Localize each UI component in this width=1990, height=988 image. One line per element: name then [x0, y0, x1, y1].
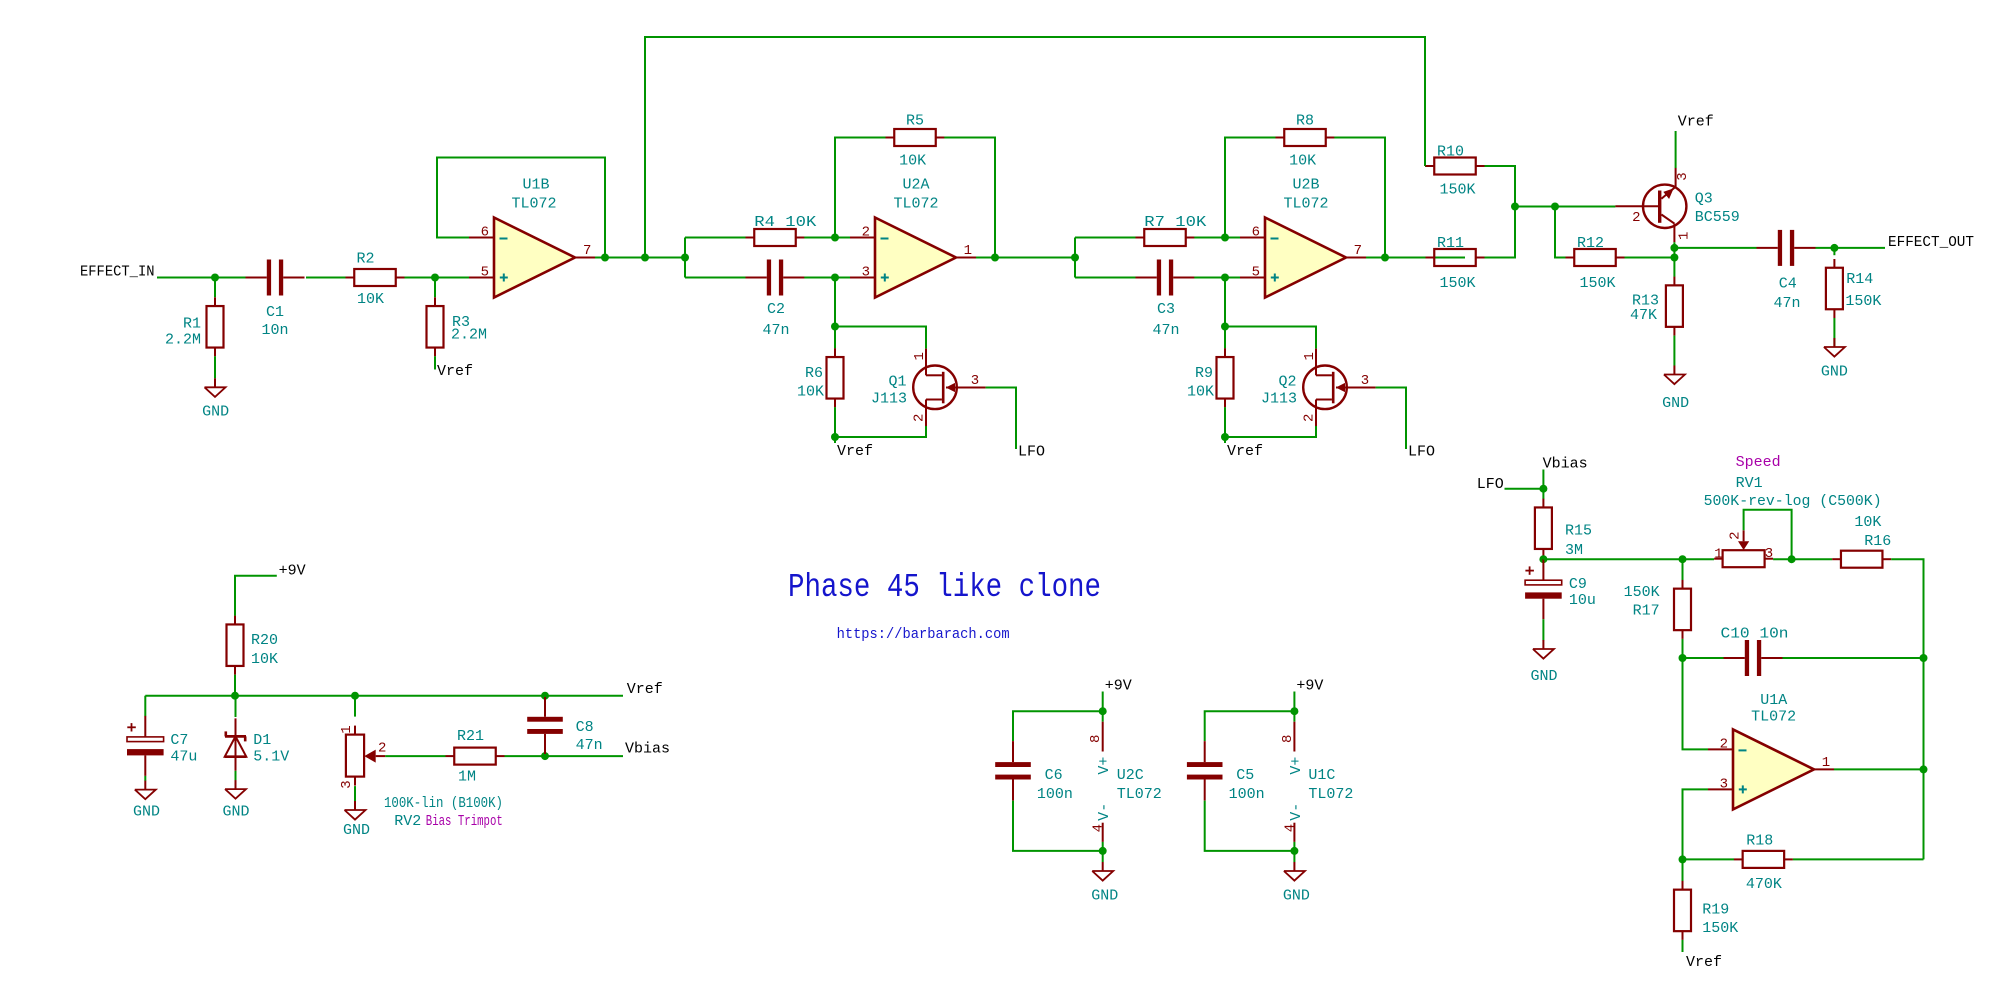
wire to R7	[1075, 237, 1136, 239]
wire U2B out to R11	[1385, 257, 1426, 259]
wire EFFECT_IN to C1	[157, 277, 246, 279]
R15 labels 3M	[1565, 523, 1592, 560]
svg-text:6: 6	[1252, 225, 1260, 241]
wire R3 top	[434, 278, 436, 298]
wire R9 bottom	[1224, 407, 1226, 443]
wire R9 top lead	[1224, 327, 1226, 349]
capacitor C5	[1187, 741, 1223, 800]
svg-text:GND: GND	[1530, 668, 1557, 685]
svg-text:C5: C5	[1236, 767, 1254, 784]
wire LFO to Vbias node	[1505, 488, 1544, 490]
resistor R9	[1217, 348, 1234, 407]
svg-text:C9: C9	[1569, 576, 1587, 593]
svg-text:4: 4	[1091, 824, 1107, 832]
svg-text:TL072: TL072	[1283, 196, 1328, 213]
svg-text:10n: 10n	[261, 322, 288, 339]
Q1 pin numbers 1 2 3	[912, 352, 980, 422]
svg-text:3: 3	[1765, 546, 1773, 562]
ground U1C	[1283, 862, 1310, 905]
resistor R10	[1426, 158, 1485, 175]
transistor Q3 BC559	[1615, 168, 1686, 242]
Q2 pin numbers 1 2 3	[1302, 352, 1370, 422]
net label Vref (R19)	[1686, 954, 1722, 971]
C10 labels 10n	[1721, 626, 1789, 643]
ground U2C	[1091, 862, 1118, 905]
svg-text:2.2M: 2.2M	[165, 332, 201, 349]
R9 labels 10K	[1187, 365, 1214, 401]
U2C labels TL072	[1117, 767, 1162, 803]
svg-text:GND: GND	[343, 822, 370, 839]
wire R10/R11 right join	[1485, 166, 1516, 258]
svg-text:GND: GND	[222, 804, 249, 821]
svg-text:https://barbarach.com: https://barbarach.com	[837, 626, 1010, 643]
junction inverting node U2B	[1221, 234, 1229, 242]
potentiometer RV1	[1714, 530, 1773, 567]
net label Vref (rail)	[627, 681, 663, 698]
wire Q2 source to Vref node	[1225, 426, 1316, 437]
svg-text:R9: R9	[1195, 365, 1213, 382]
wire decoupling loop C5	[1205, 711, 1295, 851]
svg-text:5: 5	[481, 265, 489, 281]
wire R4 to inverting input	[804, 237, 850, 239]
svg-text:C1: C1	[266, 304, 284, 321]
Q2 labels J113	[1261, 374, 1297, 408]
junction Vref/RV2	[351, 692, 359, 700]
junction C8/Vbias	[541, 752, 549, 760]
wire R16 to right rail	[1891, 559, 1923, 859]
wire R1 top	[214, 278, 216, 298]
wire R17 bottom	[1682, 639, 1684, 658]
svg-text:150K: 150K	[1439, 182, 1475, 199]
R21 labels 1M	[457, 728, 484, 786]
capacitor C7 polarized	[127, 716, 164, 776]
junction U2A output	[991, 254, 999, 262]
wire R12 to Q3 collector node	[1625, 257, 1675, 259]
U1C labels TL072	[1308, 767, 1353, 803]
capacitor C3	[1136, 260, 1195, 296]
resistor R15	[1535, 499, 1552, 558]
ground RV2	[343, 801, 370, 839]
junction Vref/R20	[231, 692, 239, 700]
resistor R7	[1136, 229, 1195, 246]
wire RV2 top	[354, 696, 356, 717]
svg-text:Vref: Vref	[1227, 443, 1263, 460]
power +9V (U2C)	[1103, 677, 1132, 711]
resistor R16	[1832, 551, 1891, 568]
svg-text:TL072: TL072	[1117, 786, 1162, 803]
wire R6 bottom	[834, 407, 836, 443]
svg-text:100n: 100n	[1037, 786, 1073, 803]
svg-text:10K: 10K	[797, 384, 824, 401]
wire Q1 gate to LFO	[986, 388, 1016, 450]
svg-text:GND: GND	[1662, 395, 1689, 412]
wire R15 node to RV1	[1543, 558, 1714, 560]
svg-text:R21: R21	[457, 728, 484, 745]
svg-text:U2A: U2A	[902, 177, 929, 194]
svg-text:2: 2	[1302, 414, 1318, 422]
net label LFO (Q1)	[1018, 444, 1045, 461]
svg-text:Vref: Vref	[837, 443, 873, 460]
U1A labels TL072	[1751, 692, 1796, 726]
wire R14 top	[1833, 248, 1835, 255]
svg-text:10K: 10K	[1289, 153, 1316, 170]
svg-text:Vbias: Vbias	[625, 741, 670, 758]
resistor R1	[207, 297, 224, 356]
svg-text:5: 5	[1252, 265, 1260, 281]
svg-text:10K: 10K	[1854, 514, 1881, 531]
wire R18 left	[1683, 858, 1735, 860]
svg-text:2: 2	[862, 225, 870, 241]
R12 labels 150K	[1577, 235, 1616, 292]
svg-text:+9V: +9V	[1105, 677, 1132, 694]
wire Q2 gate to LFO	[1376, 388, 1406, 450]
wire to C2	[685, 277, 746, 279]
svg-text:2: 2	[1720, 737, 1728, 753]
C1 labels 10n	[261, 304, 288, 339]
U2B pin numbers 6 5 7	[1252, 225, 1362, 281]
resistor R18	[1734, 851, 1793, 868]
net label LFO (Q2)	[1408, 444, 1435, 461]
wire C7 to ground	[144, 776, 146, 781]
svg-text:R18: R18	[1746, 833, 1773, 850]
wire long top feedback to R10	[645, 37, 1425, 258]
svg-text:10K: 10K	[899, 153, 926, 170]
R6 labels 10K	[797, 365, 824, 401]
wire C1 to R2	[306, 277, 346, 279]
wire C7 top	[144, 696, 146, 717]
net label Vref (Q3)	[1678, 114, 1714, 131]
U1B pin numbers 6 5 7	[481, 225, 592, 281]
zener diode D1	[225, 718, 247, 770]
R7 labels 10K	[1144, 214, 1206, 231]
resistor R2	[346, 269, 405, 286]
svg-text:D1: D1	[253, 732, 271, 749]
svg-text:47K: 47K	[1630, 307, 1657, 324]
svg-text:LFO: LFO	[1477, 476, 1504, 493]
wire R18 right to rail	[1793, 858, 1924, 860]
R5 labels 10K	[899, 113, 926, 170]
wire to Q1 drain	[835, 327, 926, 349]
junction +9V rail U2C	[1099, 707, 1107, 715]
wire RV1 to R16	[1773, 558, 1832, 560]
wire to C3	[1075, 277, 1136, 279]
svg-text:5.1V: 5.1V	[253, 749, 289, 766]
capacitor C10	[1724, 640, 1783, 676]
wire decoupling loop C6	[1013, 711, 1103, 851]
svg-text:10K: 10K	[251, 651, 278, 668]
wire stage split U2B	[1074, 238, 1076, 278]
net label Vref (Q2)	[1227, 443, 1263, 460]
junction Vref node Q1	[831, 433, 839, 441]
C6 labels 100n	[1037, 767, 1073, 803]
resistor R8	[1276, 129, 1335, 146]
wire R2 to U1B pin 5	[405, 277, 471, 279]
transistor Q2 J113	[1303, 349, 1375, 426]
ground C7	[133, 781, 160, 821]
wire D1 top	[235, 696, 237, 717]
svg-text:2: 2	[1728, 531, 1744, 539]
wire Vbias down	[1542, 470, 1544, 500]
svg-text:TL072: TL072	[893, 196, 938, 213]
svg-text:C10 10n: C10 10n	[1721, 626, 1789, 643]
svg-text:C2: C2	[767, 301, 785, 318]
junction collector / EFFECT_OUT	[1670, 244, 1678, 252]
RV2 pin numbers 1 2 3	[339, 725, 386, 789]
svg-text:150K: 150K	[1439, 275, 1475, 292]
wire RV1 wiper loop	[1744, 510, 1792, 560]
svg-text:Vbias: Vbias	[1543, 456, 1588, 473]
wire C2 to non-inverting input	[804, 277, 850, 279]
Q1 labels J113	[871, 374, 907, 408]
svg-text:470K: 470K	[1746, 876, 1782, 893]
capacitor C4	[1757, 230, 1816, 266]
wire R17 top lead	[1682, 559, 1684, 580]
wire Q1 source to Vref node	[835, 426, 926, 437]
R8 labels 10K	[1289, 113, 1316, 170]
wire Vref rail	[145, 695, 623, 697]
junction stage input U2B	[1071, 254, 1079, 262]
net label Vbias (LFO)	[1543, 456, 1588, 473]
svg-text:Vref: Vref	[1678, 114, 1714, 131]
svg-text:C4: C4	[1779, 276, 1797, 293]
RV1 field Speed	[1736, 454, 1781, 471]
net label EFFECT_IN	[80, 263, 155, 280]
svg-text:47n: 47n	[1152, 322, 1179, 339]
wire collector to C4	[1674, 247, 1756, 249]
svg-text:10K: 10K	[357, 291, 384, 308]
wire U1A output to rail	[1834, 768, 1924, 770]
svg-text:3M: 3M	[1565, 542, 1583, 559]
wire R10 left from top feedback	[1424, 165, 1427, 167]
svg-text:Q2: Q2	[1278, 374, 1296, 391]
ground R14	[1821, 338, 1848, 381]
junction U1B out / feedback	[601, 254, 609, 262]
junction R18/R19/pin3	[1679, 855, 1687, 863]
junction inverting node U2A	[831, 234, 839, 242]
capacitor C8	[527, 697, 563, 754]
wire R13 to ground	[1673, 336, 1675, 366]
U1A pin numbers 2 3 1	[1720, 737, 1831, 793]
svg-text:Vref: Vref	[437, 363, 473, 380]
net label Vref (Q1)	[837, 443, 873, 460]
R1 labels 2.2M	[165, 316, 201, 349]
capacitor C6	[995, 741, 1031, 800]
svg-text:J113: J113	[871, 391, 907, 408]
svg-text:Vref: Vref	[1686, 954, 1722, 971]
wire C10 right to rail	[1783, 657, 1924, 659]
junction EFFECT_OUT / R14	[1830, 244, 1838, 252]
svg-text:47n: 47n	[1773, 295, 1800, 312]
C9 labels 10u	[1569, 576, 1596, 609]
wire RV2 wiper to R21	[385, 755, 445, 757]
RV1 labels 500K-rev-log (C500K)	[1704, 475, 1882, 510]
subtitle url	[837, 626, 1010, 643]
op-amp U2A	[850, 218, 976, 298]
svg-text:R20: R20	[251, 632, 278, 649]
ground D1	[222, 780, 249, 820]
resistor R20	[227, 616, 244, 675]
capacitor C1	[246, 260, 305, 296]
resistor R6	[827, 348, 844, 407]
resistor R3	[427, 297, 444, 356]
net label LFO (source)	[1477, 476, 1504, 493]
junction R9 top	[1221, 323, 1229, 331]
svg-text:+9V: +9V	[1296, 677, 1323, 694]
junction base node / R12	[1551, 203, 1559, 211]
junction U2B output	[1381, 254, 1389, 262]
svg-text:V-: V-	[1288, 803, 1305, 821]
svg-text:R17: R17	[1633, 603, 1660, 620]
R20 labels 10K	[251, 632, 278, 668]
svg-text:GND: GND	[1821, 364, 1848, 381]
wire U1B output net	[595, 257, 685, 259]
svg-text:Phase 45 like clone: Phase 45 like clone	[788, 569, 1101, 606]
capacitor C9 polarized	[1525, 559, 1562, 619]
junction C10/rail	[1920, 654, 1928, 662]
svg-text:8: 8	[1280, 735, 1296, 743]
wire R20 to Vref rail	[234, 675, 236, 696]
svg-text:4: 4	[1282, 824, 1298, 832]
svg-text:TL072: TL072	[511, 196, 556, 213]
wire to R4	[685, 237, 746, 239]
resistor R4	[746, 229, 805, 246]
svg-text:R11: R11	[1437, 235, 1464, 252]
svg-text:GND: GND	[133, 804, 160, 821]
svg-text:8: 8	[1088, 735, 1104, 743]
wire C4 to EFFECT_OUT	[1816, 247, 1886, 249]
svg-text:500K-rev-log (C500K): 500K-rev-log (C500K)	[1704, 493, 1882, 510]
svg-text:10u: 10u	[1569, 592, 1596, 609]
svg-text:R8: R8	[1296, 113, 1314, 130]
svg-text:R12: R12	[1577, 235, 1604, 252]
svg-text:TL072: TL072	[1751, 709, 1796, 726]
svg-text:R10: R10	[1437, 143, 1464, 160]
R2 labels 10K	[356, 251, 384, 309]
svg-text:2.2M: 2.2M	[451, 327, 487, 344]
op-amp U1B	[469, 218, 595, 298]
svg-text:47n: 47n	[762, 322, 789, 339]
wire stage split U2A	[684, 238, 686, 278]
junction RV1 wiper/pin3	[1788, 555, 1796, 563]
junction R10/R11 node	[1511, 203, 1519, 211]
U2B labels TL072	[1283, 177, 1328, 213]
op-amp power unit U2C pins 8 V+ V- 4	[1088, 711, 1113, 851]
svg-text:V-: V-	[1096, 803, 1113, 821]
R17 labels 150K	[1624, 584, 1660, 620]
R10 labels 150K	[1437, 143, 1476, 198]
wire R1 to ground	[214, 356, 216, 378]
Q3 pin numbers 2 3 1	[1632, 172, 1692, 240]
svg-text:1: 1	[339, 725, 355, 733]
svg-text:C3: C3	[1157, 301, 1175, 318]
power +9V (U1C)	[1294, 677, 1323, 711]
wire Q3 collector down	[1673, 242, 1675, 277]
svg-text:1: 1	[964, 243, 972, 259]
Q3 labels BC559	[1695, 191, 1740, 227]
wire D1 to ground	[235, 771, 237, 781]
svg-text:EFFECT_IN: EFFECT_IN	[80, 263, 155, 280]
wire U2A output	[976, 257, 1075, 259]
svg-text:3: 3	[1675, 172, 1691, 180]
junction bottom rail U2C	[1099, 847, 1107, 855]
wire feedback R8 right	[1334, 138, 1385, 258]
title Phase 45 like clone	[788, 569, 1101, 606]
svg-text:J113: J113	[1261, 391, 1297, 408]
net label EFFECT_OUT	[1888, 234, 1974, 251]
svg-text:Speed: Speed	[1736, 454, 1781, 471]
svg-text:6: 6	[481, 225, 489, 241]
svg-text:R5: R5	[906, 113, 924, 130]
op-amp U2B	[1240, 218, 1366, 298]
svg-text:10K: 10K	[1187, 384, 1214, 401]
svg-text:U1C: U1C	[1308, 767, 1335, 784]
wire U1A pin 3 to R18/R19 node	[1683, 789, 1709, 859]
wire C3 node down to R9/Q cell	[1224, 278, 1226, 327]
svg-text:2: 2	[378, 741, 386, 757]
svg-text:150K: 150K	[1702, 920, 1738, 937]
wire to Q2 drain	[1225, 327, 1316, 349]
svg-text:C6: C6	[1045, 767, 1063, 784]
svg-text:7: 7	[583, 243, 591, 259]
R11 labels 150K	[1437, 235, 1476, 292]
svg-text:150K: 150K	[1624, 584, 1660, 601]
svg-text:GND: GND	[202, 404, 229, 421]
svg-text:1: 1	[1714, 547, 1722, 563]
svg-text:100n: 100n	[1229, 786, 1265, 803]
power +9V (R20)	[235, 563, 306, 616]
R16 labels 10K	[1854, 514, 1891, 550]
D1 labels 5.1V	[253, 732, 289, 766]
wire R7 to inverting input	[1194, 237, 1240, 239]
junction +9V rail U1C	[1290, 707, 1298, 715]
wire Q3 emitter to Vref	[1675, 131, 1677, 168]
wire R12 left drop	[1555, 207, 1566, 258]
svg-text:Bias Trimpot: Bias Trimpot	[426, 813, 503, 830]
wire R6 top lead	[834, 327, 836, 349]
wire feedback R5 left	[835, 138, 886, 238]
junction collector / R12	[1670, 254, 1678, 262]
svg-text:EFFECT_OUT: EFFECT_OUT	[1888, 234, 1974, 251]
svg-text:LFO: LFO	[1018, 444, 1045, 461]
R18 labels 470K	[1746, 833, 1782, 894]
RV2 field Bias Trimpot	[426, 813, 503, 830]
svg-text:150K: 150K	[1579, 275, 1615, 292]
resistor R13	[1666, 277, 1683, 336]
R19 labels 150K	[1702, 902, 1738, 938]
svg-text:100K-lin (B100K): 100K-lin (B100K)	[384, 795, 503, 812]
wire C2 node down to R6/Q cell	[834, 278, 836, 327]
svg-text:R6: R6	[805, 365, 823, 382]
svg-text:GND: GND	[1283, 888, 1310, 905]
svg-text:R4 10K: R4 10K	[754, 214, 816, 231]
junction U1A output/rail	[1920, 765, 1928, 773]
svg-text:1: 1	[912, 352, 928, 360]
svg-text:V+: V+	[1288, 757, 1305, 775]
op-amp power unit U1C pins 8 V+ V- 4	[1280, 711, 1305, 851]
junction bottom rail U1C	[1290, 847, 1298, 855]
svg-text:GND: GND	[1091, 888, 1118, 905]
wire to Q3 base	[1515, 206, 1615, 208]
svg-text:3: 3	[1720, 777, 1728, 793]
svg-text:RV2: RV2	[394, 813, 421, 830]
resistor R21	[446, 748, 505, 765]
resistor R11	[1426, 249, 1485, 266]
ground R13	[1662, 366, 1689, 413]
wire R14 to ground	[1833, 318, 1835, 346]
wire RV2 to ground	[354, 786, 356, 801]
svg-text:47n: 47n	[576, 737, 603, 754]
resistor R5	[886, 129, 945, 146]
